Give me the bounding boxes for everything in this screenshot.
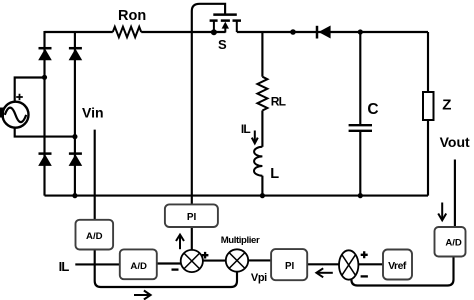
svg-text:A/D: A/D [130,261,147,272]
svg-text:PI: PI [187,212,197,223]
svg-text:Vref: Vref [388,261,407,272]
svg-text:Multiplier: Multiplier [221,235,260,246]
svg-text:Vin: Vin [82,104,104,120]
svg-text:Vout: Vout [440,134,470,150]
svg-text:RL: RL [271,94,286,108]
svg-text:Vpi: Vpi [251,272,267,284]
svg-text:PI: PI [285,261,295,272]
svg-text:A/D: A/D [445,238,462,249]
svg-text:Z: Z [442,97,451,114]
svg-text:IL: IL [59,259,70,274]
svg-text:A/D: A/D [86,231,103,242]
svg-text:C: C [367,101,378,118]
svg-text:S: S [218,37,227,52]
svg-text:IL: IL [241,122,251,136]
svg-text:L: L [270,166,279,182]
svg-text:Ron: Ron [118,8,146,24]
